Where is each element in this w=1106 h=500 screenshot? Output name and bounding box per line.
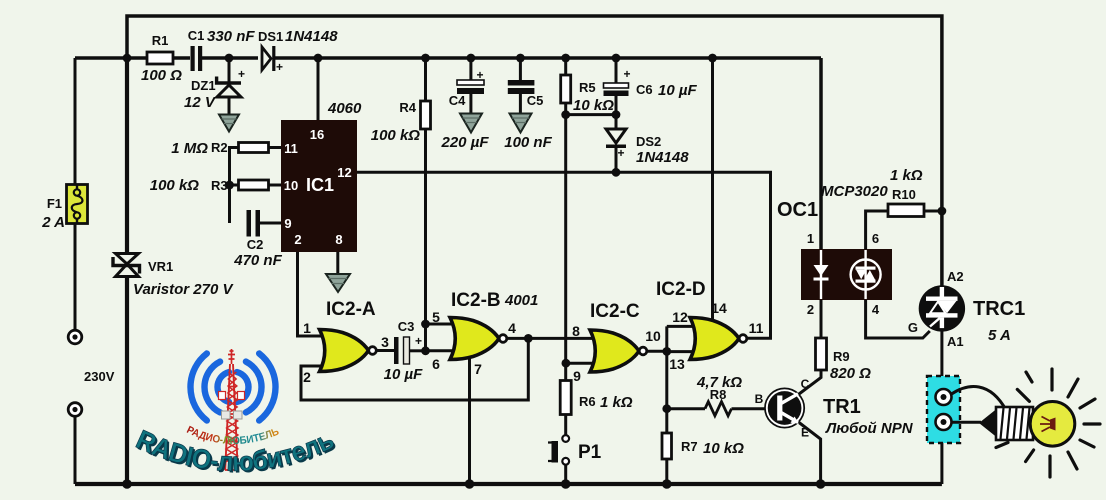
IC U1 4060 xyxy=(281,100,362,252)
diode DS2 1N4148 xyxy=(606,129,689,166)
capacitor C2 xyxy=(233,210,282,269)
svg-text:A2: A2 xyxy=(947,269,964,284)
ground below IC1 pin 8 xyxy=(326,274,350,292)
svg-text:100 kΩ: 100 kΩ xyxy=(150,177,200,194)
wire: straight lead to lamp tip xyxy=(952,421,982,424)
pushbutton P1 xyxy=(548,435,602,465)
fuse F1 xyxy=(41,185,87,232)
svg-text:16: 16 xyxy=(310,127,324,142)
wire: OC1 pin4 to triac gate xyxy=(866,300,930,338)
svg-text:5: 5 xyxy=(432,309,440,325)
zener DZ1 12V xyxy=(184,67,245,111)
svg-text:100 Ω: 100 Ω xyxy=(141,67,182,84)
terminal 230V upper xyxy=(68,330,82,344)
wire: R8 to TR1 base xyxy=(667,407,766,410)
svg-text:820 Ω: 820 Ω xyxy=(830,365,871,382)
svg-text:8: 8 xyxy=(335,232,342,247)
svg-text:230V: 230V xyxy=(84,369,115,384)
svg-text:+: + xyxy=(476,68,483,82)
svg-text:9: 9 xyxy=(284,216,291,231)
svg-text:3: 3 xyxy=(381,334,389,350)
svg-text:1 kΩ: 1 kΩ xyxy=(890,167,923,184)
svg-text:R3: R3 xyxy=(211,178,228,193)
svg-text:+: + xyxy=(617,146,624,160)
svg-text:6: 6 xyxy=(432,356,440,372)
svg-text:10: 10 xyxy=(645,328,661,344)
terminal block (cyan) xyxy=(927,376,960,443)
wire: R2 R3 C2 left bus xyxy=(230,148,282,224)
resistor R5 xyxy=(561,75,614,114)
capacitor C4 xyxy=(441,68,490,151)
svg-text:220 µF: 220 µF xyxy=(441,134,490,151)
resistor R3 xyxy=(150,177,269,194)
ground below DZ1 xyxy=(219,115,239,132)
wire: IC1 pin2 to IC2-A pin1 xyxy=(298,252,325,336)
svg-text:+: + xyxy=(415,334,422,348)
svg-text:470 nF: 470 nF xyxy=(233,252,282,269)
capacitor C1 xyxy=(188,28,256,71)
svg-text:4060: 4060 xyxy=(327,100,362,117)
wire: IC2-B input stubs xyxy=(426,324,457,351)
svg-text:11: 11 xyxy=(749,320,764,336)
varistor VR1 xyxy=(113,254,234,299)
triac TRC1 xyxy=(908,269,1025,349)
svg-text:7: 7 xyxy=(474,361,482,377)
svg-text:2 A: 2 A xyxy=(41,214,65,231)
svg-text:MCP3020: MCP3020 xyxy=(821,183,888,200)
svg-text:6: 6 xyxy=(872,231,879,246)
svg-text:1 kΩ: 1 kΩ xyxy=(600,394,633,411)
svg-text:C2: C2 xyxy=(247,237,264,252)
resistor R2 xyxy=(171,140,268,157)
resistor R1 xyxy=(141,33,182,84)
wire: IC2-B output to IC2-C pin8 xyxy=(506,337,595,340)
svg-text:10 kΩ: 10 kΩ xyxy=(703,440,744,457)
svg-text:1N4148: 1N4148 xyxy=(285,28,338,45)
svg-text:11: 11 xyxy=(284,141,298,156)
resistor R6 xyxy=(560,381,633,415)
wire: curved lead to lamp xyxy=(952,387,1007,410)
wire: VR1 column x127 xyxy=(125,58,129,484)
wire: IC1 pin12 reset line to IC2-D output xyxy=(357,172,771,338)
svg-text:IC2-A: IC2-A xyxy=(326,299,376,320)
svg-text:9: 9 xyxy=(573,368,581,384)
svg-text:OC1: OC1 xyxy=(777,199,818,221)
svg-text:5 A: 5 A xyxy=(988,327,1011,344)
wire: IC2-B pin7 to ground rail xyxy=(468,352,471,484)
logo: blue arcs xyxy=(190,354,275,421)
svg-text:14: 14 xyxy=(711,300,727,316)
wire: R5 column down to IC2-C input and P1 xyxy=(564,58,567,484)
resistor R7 xyxy=(662,433,744,459)
svg-text:P1: P1 xyxy=(578,442,602,463)
svg-text:C3: C3 xyxy=(398,319,415,334)
svg-text:13: 13 xyxy=(669,356,685,372)
svg-text:1 MΩ: 1 MΩ xyxy=(171,140,208,157)
svg-text:C6: C6 xyxy=(636,82,653,97)
svg-text:R9: R9 xyxy=(833,349,850,364)
svg-text:12: 12 xyxy=(672,309,688,325)
lamp LP1 xyxy=(979,402,1075,447)
svg-text:DS2: DS2 xyxy=(636,134,661,149)
transistor TR1 xyxy=(755,377,914,440)
svg-text:DS1: DS1 xyxy=(258,29,283,44)
svg-text:100 nF: 100 nF xyxy=(504,134,552,151)
svg-text:VR1: VR1 xyxy=(148,259,173,274)
svg-text:DZ1: DZ1 xyxy=(191,78,216,93)
wire: IC2-C pin9 stub xyxy=(566,362,594,365)
svg-text:4: 4 xyxy=(508,320,516,336)
wire: C5 stub xyxy=(519,58,522,115)
svg-text:1: 1 xyxy=(303,320,311,336)
svg-text:Varistor 270 V: Varistor 270 V xyxy=(133,281,234,298)
svg-text:2: 2 xyxy=(807,302,814,317)
svg-text:100 kΩ: 100 kΩ xyxy=(371,127,421,144)
svg-text:10 µF: 10 µF xyxy=(658,82,697,99)
capacitor C5 xyxy=(504,80,552,151)
svg-text:2: 2 xyxy=(303,369,311,385)
svg-text:10 µF: 10 µF xyxy=(384,366,423,383)
logo: radio tower xyxy=(219,349,245,470)
optocoupler OC1 MCP3020 xyxy=(777,183,892,317)
resistor R4 xyxy=(371,100,431,144)
wire: C4 stub xyxy=(469,58,472,115)
svg-text:IC2-B: IC2-B xyxy=(451,290,501,311)
terminal 230V lower xyxy=(68,403,82,417)
svg-text:F1: F1 xyxy=(47,196,62,211)
resistor R8 (zigzag) xyxy=(696,374,742,416)
wire: main supply rail y58 xyxy=(75,58,821,249)
ground below C5 xyxy=(510,114,532,133)
capacitor C3 xyxy=(384,319,423,383)
label 230V xyxy=(84,369,115,384)
wire: bottom rail xyxy=(75,482,942,486)
svg-text:1: 1 xyxy=(807,231,814,246)
resistor R9 xyxy=(816,338,872,382)
svg-text:12 V: 12 V xyxy=(184,94,217,111)
wire: R4 column from rail to IC2-B inputs xyxy=(424,58,427,351)
wire: triac A1 to terminal block xyxy=(940,330,943,390)
wire: IC2-A output to C3 xyxy=(375,349,394,352)
logo: big arc text RADIO-любитель xyxy=(132,424,340,478)
svg-text:B: B xyxy=(755,392,764,406)
svg-text:IC2-C: IC2-C xyxy=(590,301,640,322)
wire: feedback IC2-B output to IC2-A pin2 xyxy=(301,338,528,400)
ground below C4 xyxy=(460,114,482,133)
svg-text:4,7 kΩ: 4,7 kΩ xyxy=(696,374,742,391)
svg-text:4: 4 xyxy=(872,302,880,317)
wire: C6 DS2 branch xyxy=(566,58,616,172)
svg-text:R6: R6 xyxy=(579,394,596,409)
wire: IC1 pin16 drop xyxy=(317,58,320,120)
svg-text:IC1: IC1 xyxy=(306,175,334,195)
wire: C3 to IC2-B input node xyxy=(410,349,426,352)
NOR gate IC2-B xyxy=(432,290,538,377)
wire: IC2-C output node to IC2-D inputs and R7 xyxy=(646,326,695,484)
svg-text:2: 2 xyxy=(294,232,301,247)
wire: left 230V column through F1 xyxy=(74,58,77,484)
svg-text:C1: C1 xyxy=(188,28,205,43)
capacitor C6 xyxy=(604,67,698,99)
wire: top border frame with left and right drops xyxy=(127,16,942,288)
svg-text:8: 8 xyxy=(572,323,580,339)
svg-text:10 kΩ: 10 kΩ xyxy=(573,97,614,114)
svg-text:E: E xyxy=(801,426,809,440)
svg-text:12: 12 xyxy=(337,165,351,180)
svg-text:R1: R1 xyxy=(152,33,169,48)
wire: TR1 emitter to ground rail xyxy=(799,423,821,485)
svg-text:R2: R2 xyxy=(211,140,228,155)
svg-text:C5: C5 xyxy=(527,93,544,108)
NOR gate IC2-A xyxy=(303,299,389,385)
svg-text:+: + xyxy=(238,67,245,81)
wire: IC1 pin8 ground stub xyxy=(336,252,339,276)
svg-text:TRC1: TRC1 xyxy=(973,298,1025,320)
svg-text:C: C xyxy=(801,377,810,391)
node: junction dots xyxy=(122,54,946,489)
wire: IC2-D pin14 drop xyxy=(711,58,714,322)
lamp rays xyxy=(996,369,1100,477)
wire: terminal block to bottom rail xyxy=(940,429,943,484)
svg-text:IC2-D: IC2-D xyxy=(656,279,706,300)
svg-text:C4: C4 xyxy=(449,93,466,108)
svg-text:+: + xyxy=(623,67,630,81)
wire: DZ1 branch xyxy=(228,58,231,115)
svg-text:A1: A1 xyxy=(947,334,964,349)
svg-text:1N4148: 1N4148 xyxy=(636,149,689,166)
svg-text:330 nF: 330 nF xyxy=(207,28,255,45)
NOR gate IC2-D xyxy=(656,279,764,372)
wire: OC1 pin6 to R10 xyxy=(866,211,942,249)
svg-text:R4: R4 xyxy=(399,100,416,115)
wire: OC1 pin2 to R9 to TR1 collector xyxy=(799,300,821,394)
svg-text:4001: 4001 xyxy=(504,292,538,309)
svg-text:R10: R10 xyxy=(892,187,916,202)
diode DS1 1N4148 xyxy=(258,28,338,74)
svg-text:TR1: TR1 xyxy=(823,396,861,418)
resistor R10 xyxy=(888,167,924,217)
svg-text:Любой NPN: Любой NPN xyxy=(825,420,914,437)
svg-text:G: G xyxy=(908,320,918,335)
svg-text:R7: R7 xyxy=(681,439,698,454)
svg-text:+: + xyxy=(276,60,283,74)
svg-text:R5: R5 xyxy=(579,80,596,95)
svg-text:10: 10 xyxy=(284,178,298,193)
NOR gate IC2-C xyxy=(572,301,661,384)
